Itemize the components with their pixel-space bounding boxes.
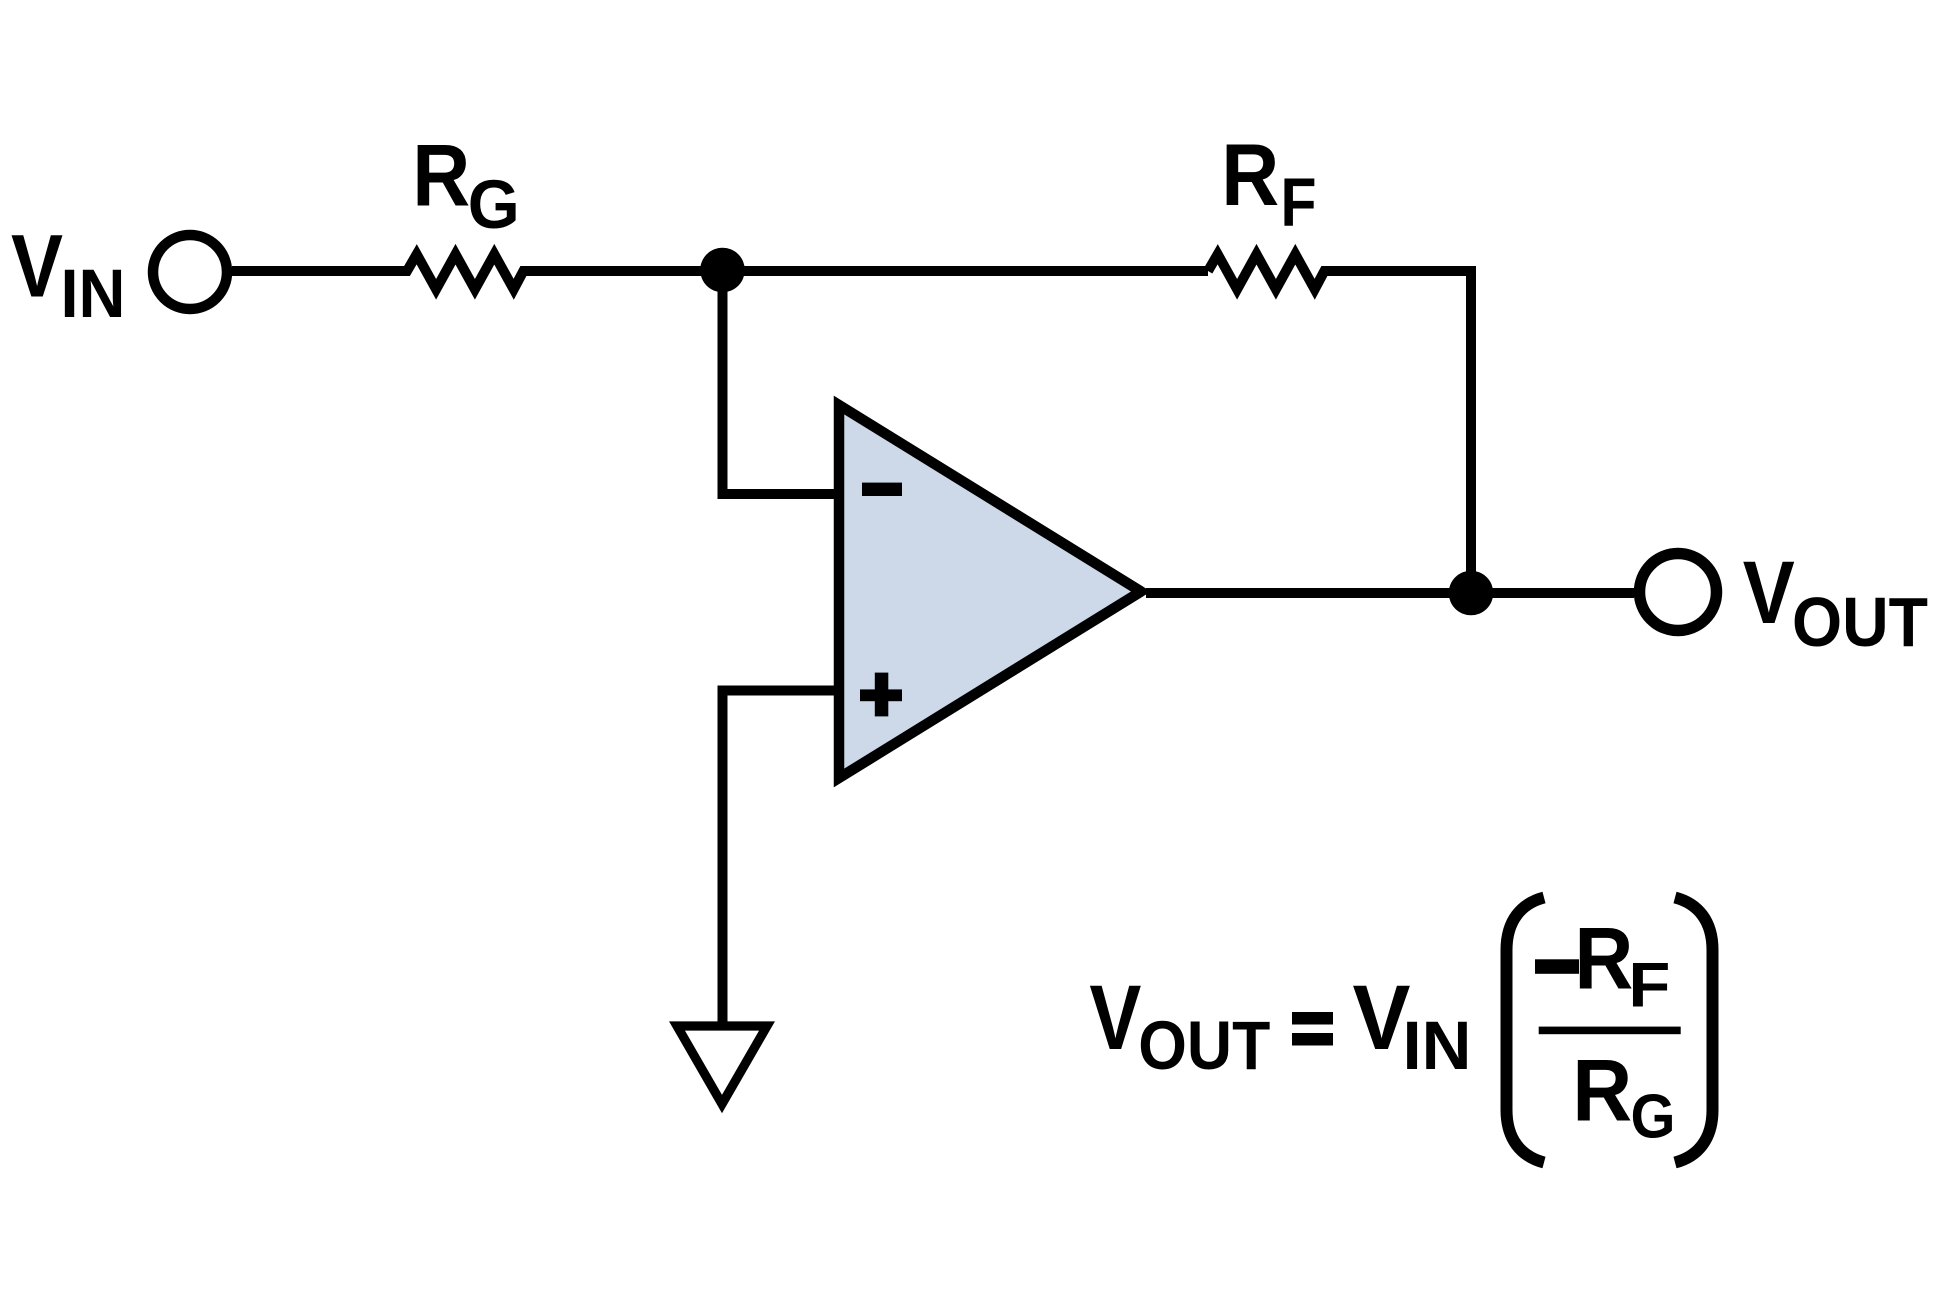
svg-text:G: G [468,166,520,243]
label RF [1221,125,1316,241]
svg-text:V: V [1089,967,1141,1069]
wire junction down to inverting input [723,270,840,494]
label VOUT [1743,542,1928,661]
formula right parenthesis [1675,898,1713,1163]
node VIN terminal [153,235,227,309]
op-amp plus pin mark [860,673,902,717]
svg-text:R: R [1574,909,1633,1008]
formula left parenthesis [1507,898,1545,1163]
wire noninverting input to ground drop [723,691,840,1027]
svg-text:R: R [412,126,470,225]
svg-text:OUT: OUT [1138,1007,1270,1084]
label VIN [11,216,126,333]
formula fraction bar [1539,1027,1681,1035]
op-amp minus pin mark [862,483,902,496]
svg-text:OUT: OUT [1792,583,1928,661]
svg-text:V: V [11,216,63,316]
wire junction to RF [723,266,1209,276]
svg-text:R: R [1221,125,1279,224]
resistor RF [1208,254,1471,593]
ground [677,1026,767,1104]
wire op-amp output to VOUT terminal [1146,588,1634,598]
svg-text:V: V [1743,542,1795,642]
formula numerator -RF [1535,909,1670,1021]
node VOUT terminal [1640,554,1717,631]
node junction A (inverting input node) [700,248,745,293]
formula denominator RG [1572,1041,1675,1152]
svg-text:G: G [1631,1082,1676,1152]
svg-text:R: R [1572,1041,1632,1140]
op-amp U1 [839,405,1141,778]
svg-text:IN: IN [61,255,126,332]
wire input to RG [232,254,723,289]
label RG [412,126,519,244]
svg-text:F: F [1281,164,1317,241]
svg-text:F: F [1628,951,1670,1021]
formula VOUT = VIN [1089,967,1471,1084]
node output junction [1449,571,1494,616]
svg-text:IN: IN [1403,1007,1472,1084]
